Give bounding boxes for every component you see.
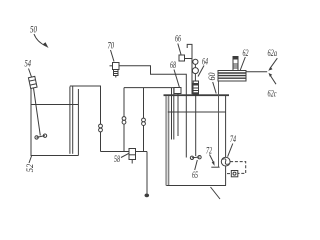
leader 58 [121,154,129,158]
svg-text:68: 68 [170,61,176,71]
pump 74 [221,157,230,166]
leader 64 [198,66,204,77]
band 62 (condenser) [218,71,246,82]
tank 60 bottom [166,185,226,187]
tank 60 lid [164,94,230,96]
component 70 valve body [113,63,120,70]
leader 65 [195,160,198,170]
dash into tank [227,173,231,175]
dip tube into tank 52 (double line) [69,87,71,154]
stirrer shaft tank 60 [195,94,197,156]
arrow for 50 [34,34,46,46]
svg-text:70: 70 [108,41,115,51]
tank 52 bottom [31,155,79,157]
leader 62 [240,57,245,70]
leader 62c with arrow [270,75,276,84]
pump discharge piping (dashed) [230,162,246,174]
leader 62a with arrow [270,58,278,69]
svg-text:52: 52 [26,163,36,172]
leader 74 [228,144,233,157]
tank 60 right wall lower [225,166,227,186]
leader 52 [29,156,32,163]
svg-text:62c: 62c [268,89,278,99]
bottom manifold [101,151,148,153]
svg-text:65: 65 [192,171,198,181]
tank 52 right wall [77,89,79,156]
svg-text:50: 50 [30,26,37,36]
pipe E bottom cap [211,166,219,168]
valve V2 [122,117,126,121]
box 68 on lid [174,88,181,94]
svg-text:66: 66 [175,35,181,45]
svg-text:62a: 62a [268,49,278,59]
valve V3 [142,118,146,122]
impeller 65 [192,156,200,159]
drain pipe down [146,152,148,194]
box H with circle [231,171,238,177]
svg-text:64: 64 [202,57,208,67]
leader 68 [174,70,179,88]
vent pipe [187,44,192,94]
leader 54 [29,69,32,78]
tank 60 right wall upper [225,96,227,157]
svg-text:72: 72 [206,147,212,157]
leader 70 [111,50,115,62]
svg-text:60: 60 [208,72,218,80]
valve line 3 [143,88,145,152]
leader 60 [213,82,217,94]
tank 52 rim [31,104,78,106]
tank 52 left wall [30,89,32,156]
dip tube A (from manifold) [171,88,173,140]
impeller tank 52 [37,136,46,138]
leader 66 [178,44,181,55]
component 58 [129,149,136,160]
stirrer circles 64 [193,59,198,64]
connector 66 to vent [185,58,193,60]
box G on band 62 [233,57,238,71]
leader 72 with arrow [210,155,214,164]
box 66 [179,55,185,61]
pipe E from band 62 into tank [218,81,220,168]
pipe tank52 to valve line 1 [70,86,101,152]
gland box F on lid [193,81,198,84]
bottom leader [211,187,221,199]
liquid level tank 60 [168,111,226,113]
outlet line 62 [246,71,267,73]
valve V1 [99,124,103,128]
motor 54 (stirrer drive) [28,76,37,88]
dip tube B (from 68) [177,94,179,137]
drain end dot [145,194,150,198]
pipe 70 to tank 60 [119,66,186,158]
component 70 lower body [114,70,119,76]
tank 60 left wall [166,96,169,186]
valve line 2 [123,88,125,152]
top manifold to tank 60 [124,88,174,95]
stirrer shaft tank 52 [34,88,41,136]
svg-text:54: 54 [25,60,32,70]
svg-text:58: 58 [114,155,120,165]
